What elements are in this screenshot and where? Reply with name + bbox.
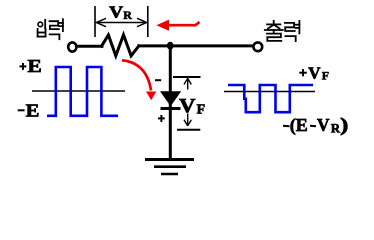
svg-text:R: R bbox=[123, 8, 132, 22]
svg-text:E: E bbox=[28, 56, 42, 76]
svg-text:F: F bbox=[197, 103, 206, 118]
svg-text:V: V bbox=[317, 115, 330, 135]
svg-text:E: E bbox=[26, 100, 40, 120]
svg-text:(E: (E bbox=[290, 115, 308, 136]
svg-text:V: V bbox=[308, 63, 321, 82]
svg-text:F: F bbox=[322, 69, 329, 83]
svg-text:): ) bbox=[340, 115, 348, 136]
svg-text:V: V bbox=[109, 2, 124, 21]
svg-text:V: V bbox=[179, 95, 196, 117]
svg-text:R: R bbox=[331, 120, 341, 135]
